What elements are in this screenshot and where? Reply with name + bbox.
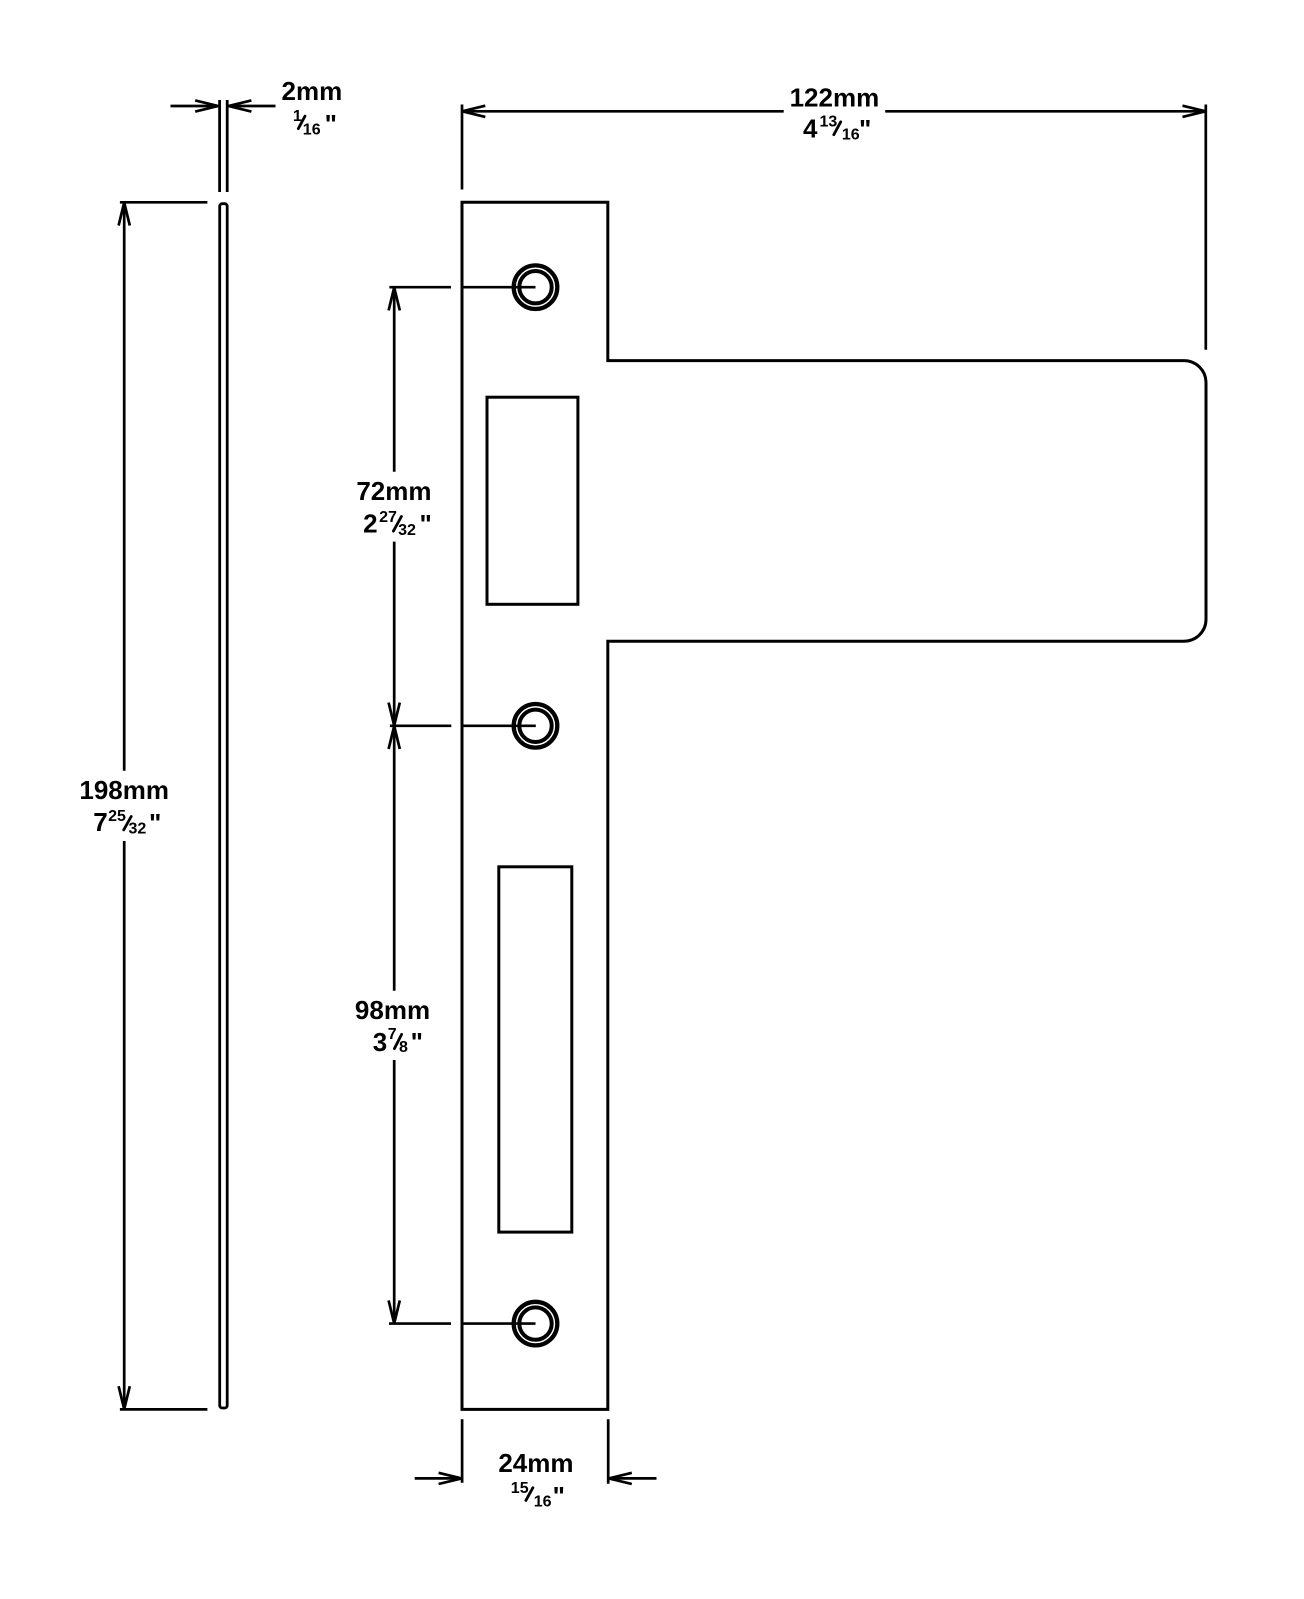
svg-text:122mm: 122mm bbox=[790, 83, 880, 113]
svg-text:2mm: 2mm bbox=[282, 76, 343, 106]
label 122mm bbox=[790, 83, 880, 113]
svg-text:7: 7 bbox=[388, 1026, 397, 1043]
leader line bottom hole bbox=[389, 1322, 536, 1325]
svg-text:8: 8 bbox=[399, 1039, 408, 1056]
98mm dimension line and arrows bbox=[389, 726, 400, 1323]
screw hole top bbox=[514, 265, 558, 309]
svg-text:72mm: 72mm bbox=[356, 476, 431, 506]
label 3 7/8 inch bbox=[373, 1026, 423, 1057]
side view plate (edge view) bbox=[220, 204, 228, 1408]
label 98mm bbox=[355, 995, 430, 1025]
svg-text:27: 27 bbox=[379, 509, 397, 526]
svg-text:32: 32 bbox=[398, 522, 416, 539]
label 198mm bbox=[79, 775, 169, 805]
label 72mm bbox=[356, 476, 431, 506]
svg-text:16: 16 bbox=[303, 122, 321, 139]
svg-text:25: 25 bbox=[108, 808, 126, 825]
svg-text:": " bbox=[325, 109, 337, 139]
72mm dimension line and arrows bbox=[389, 287, 400, 725]
label 4 13/16 inch bbox=[803, 113, 871, 144]
extension lines for 122mm width dimension bbox=[462, 105, 1206, 350]
svg-text:": " bbox=[859, 114, 871, 144]
label 24mm bbox=[498, 1448, 573, 1478]
svg-text:15: 15 bbox=[511, 1480, 529, 1497]
leader line middle hole bbox=[390, 724, 536, 727]
deadbolt cutout (lower rectangular hole) bbox=[499, 867, 572, 1232]
svg-text:13: 13 bbox=[820, 114, 838, 131]
extension lines for 198mm height dimension bbox=[120, 202, 207, 1409]
label 15/16 inch bbox=[511, 1480, 565, 1511]
latch cutout (upper rectangular hole) bbox=[487, 397, 578, 604]
extension lines for 24mm dimension bbox=[462, 1419, 608, 1484]
svg-text:": " bbox=[411, 1027, 423, 1057]
label 2 27/32 inch bbox=[363, 508, 432, 539]
leader line top hole bbox=[389, 286, 535, 289]
svg-text:16: 16 bbox=[842, 127, 860, 144]
screw hole middle bbox=[514, 704, 558, 748]
extension lines for 2mm thickness dimension bbox=[220, 100, 228, 192]
svg-text:3: 3 bbox=[373, 1027, 387, 1057]
svg-text:2: 2 bbox=[363, 508, 377, 538]
svg-text:98mm: 98mm bbox=[355, 995, 430, 1025]
122mm dimension line and arrows bbox=[462, 106, 1205, 117]
2mm dimension lines and arrows bbox=[171, 100, 276, 111]
svg-text:": " bbox=[149, 808, 161, 838]
front view plate outline bbox=[462, 202, 1206, 1409]
svg-text:4: 4 bbox=[803, 113, 818, 143]
svg-text:198mm: 198mm bbox=[79, 775, 169, 805]
svg-text:": " bbox=[553, 1481, 565, 1511]
screw hole bottom bbox=[514, 1302, 558, 1346]
label 7 25/32 inch bbox=[93, 807, 161, 838]
svg-text:16: 16 bbox=[534, 1494, 552, 1511]
svg-text:32: 32 bbox=[129, 821, 147, 838]
svg-text:24mm: 24mm bbox=[498, 1448, 573, 1478]
24mm dimension arrows bbox=[415, 1473, 657, 1484]
198mm dimension line and arrows bbox=[119, 203, 130, 1410]
label 2mm bbox=[282, 76, 343, 106]
svg-text:": " bbox=[420, 509, 432, 539]
label 1/16 inch bbox=[293, 108, 337, 139]
svg-text:7: 7 bbox=[93, 807, 107, 837]
